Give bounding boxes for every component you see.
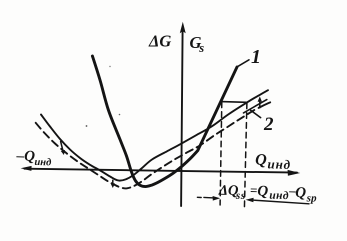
vertical dashed line at Q_sp (220, 102, 222, 205)
svg-text:инд: инд (269, 190, 289, 202)
svg-text:s: s (198, 41, 204, 55)
dashed shifted curve 2 (36, 108, 258, 188)
thick curve: parabola continuing as straight line 1 (92, 56, 237, 187)
svg-text:2: 2 (263, 114, 274, 135)
horizontal axis (Q axis) (21, 166, 301, 176)
annotation Delta Q_ss = Q_ind - Q_sp (218, 181, 318, 204)
svg-text:инд: инд (34, 157, 51, 169)
solid shallow curve 2 (dip then straight rise) (41, 90, 268, 180)
svg-text:ss: ss (235, 190, 246, 202)
svg-text:ΔG: ΔG (148, 32, 171, 51)
label Q_ind right (255, 151, 291, 172)
svg-text:инд: инд (267, 156, 291, 172)
svg-text:sp: sp (306, 192, 318, 204)
label G_s (190, 33, 205, 55)
leader to label 2 (244, 100, 267, 113)
svg-text:Q: Q (295, 185, 306, 201)
vertical dashed line at Q_ind (244, 103, 247, 209)
vertical axis (Delta G / Gs axis) (180, 22, 186, 206)
small shift arrow on right (dashed to solid) (258, 96, 262, 107)
horizontal connector segment (221, 101, 247, 104)
dimension arrow pointing right at Q_sp line (197, 196, 220, 201)
ink speck 2 (119, 114, 121, 116)
label -Q_ind left (15, 148, 52, 168)
ink speck 3 (109, 66, 110, 67)
dimension arrow pointing left at Q_ind line with long shaft (246, 198, 309, 204)
leader line to label 1 (237, 60, 249, 67)
small shift arrow on left descending branch (61, 141, 66, 155)
final dash of dashed curve 2 (259, 102, 271, 108)
small shift arrow at curve minimum (111, 180, 115, 188)
ink speck (86, 125, 88, 127)
svg-text:Q: Q (257, 184, 268, 200)
svg-text:Q: Q (255, 151, 268, 168)
svg-text:–Q: –Q (15, 148, 35, 165)
svg-text:1: 1 (251, 46, 261, 68)
